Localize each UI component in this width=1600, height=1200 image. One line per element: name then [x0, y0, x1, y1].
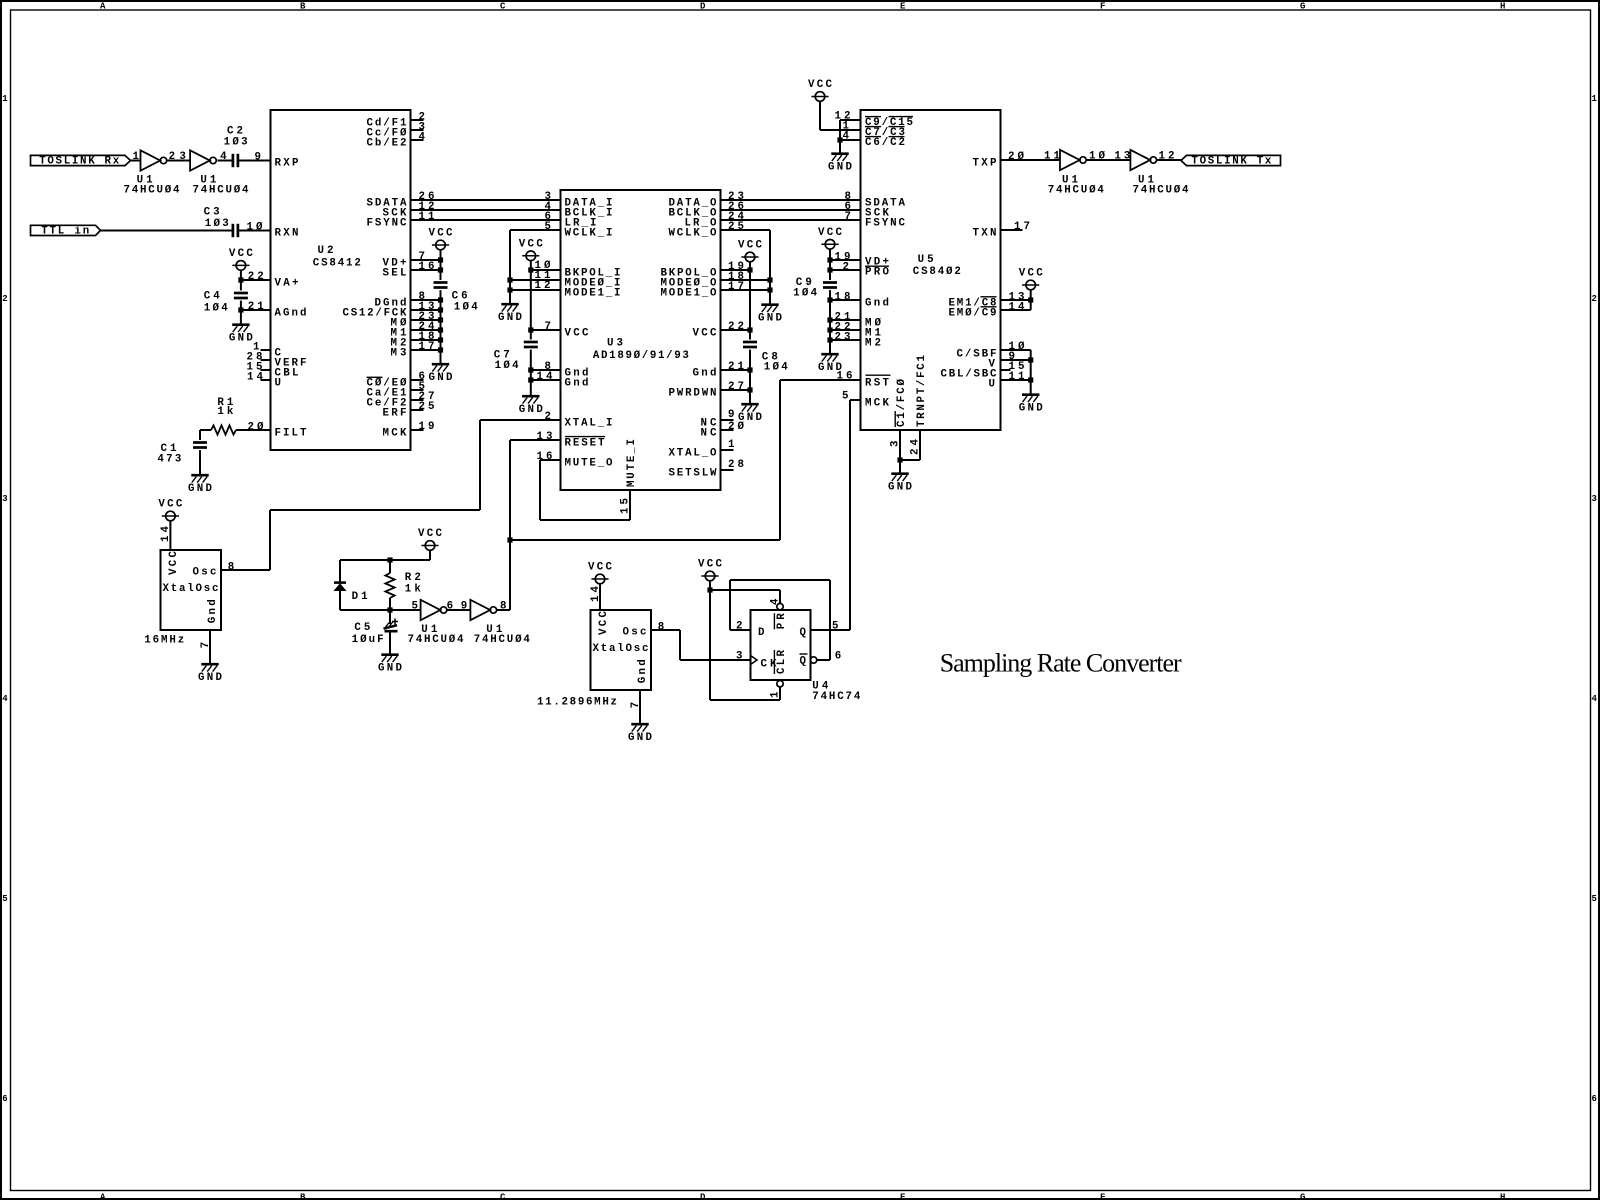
node BKPOL_O junction	[747, 267, 752, 272]
node VD+ junction	[438, 257, 443, 262]
svg-text:GND: GND	[198, 672, 223, 684]
U3 pin 24 LR_O label	[685, 211, 745, 229]
svg-text:B: B	[300, 2, 306, 12]
wire C8 column upper	[749, 262, 751, 340]
U2 pin 22 VA+ label	[248, 271, 299, 290]
svg-text:9: 9	[255, 151, 261, 163]
wire SCK to BCLK_I	[411, 209, 561, 211]
wire EM0/C9 pin 14	[1001, 309, 1031, 311]
svg-text:XtalOsc: XtalOsc	[163, 583, 219, 595]
svg-text:MODE1_I: MODE1_I	[565, 287, 621, 299]
wire R1 to C1	[200, 430, 211, 440]
U3 pin 27 PWRDWN label	[669, 381, 745, 399]
U4 pin 6 Qbar bubble	[810, 651, 841, 664]
U5 pin 3 C1/FC0 bottom	[890, 378, 909, 460]
svg-text:VCC: VCC	[738, 240, 763, 252]
power VCC at C6	[429, 228, 454, 250]
node U5 M2 junction	[827, 337, 832, 342]
U3 pin 11 MODE0_I label	[535, 270, 621, 289]
connector TOSLINK Rx	[31, 155, 131, 167]
wire TXP to U1C	[1001, 159, 1061, 161]
oscillator 11.2896MHz XtalOsc	[537, 585, 664, 708]
svg-text:FILT: FILT	[275, 428, 308, 440]
node R2 top junction	[387, 557, 392, 562]
svg-text:7: 7	[545, 321, 551, 333]
node PWRDWN junction	[747, 387, 752, 392]
svg-text:CLR: CLR	[776, 649, 788, 674]
svg-text:Gnd: Gnd	[565, 377, 589, 389]
ground above U5	[828, 154, 853, 174]
svg-text:RST: RST	[865, 377, 890, 389]
capacitor C2 103	[224, 125, 248, 167]
IC U2 CS8412	[271, 110, 411, 450]
wire MODE1_O pin 17	[721, 289, 771, 291]
svg-text:TRNPT/FC1: TRNPT/FC1	[916, 354, 928, 427]
wire D1 bottom lead	[340, 591, 390, 611]
wire U3 VCC pin 22	[721, 329, 751, 331]
U2 pin 4 Cb/E2	[367, 131, 426, 149]
wire VCC to R2/D1 top	[340, 550, 430, 560]
U1E designator	[408, 624, 465, 646]
svg-text:H: H	[1500, 1192, 1505, 1200]
svg-text:Gnd: Gnd	[865, 297, 889, 309]
svg-text:Sampling Rate Converter: Sampling Rate Converter	[940, 649, 1182, 678]
wire RESET to U5 RST	[510, 380, 861, 540]
wire SEL pin 16	[411, 269, 441, 271]
U2 pin 20 FILT label	[248, 421, 308, 439]
ground WCLK_I/MODE column	[498, 304, 523, 324]
ground below C6	[429, 364, 454, 384]
node AGnd junction	[238, 307, 243, 312]
U2 pin 28 VERF	[247, 351, 307, 369]
power VCC above U5	[808, 79, 833, 101]
svg-text:8: 8	[658, 621, 664, 633]
power VCC at C4	[229, 248, 254, 270]
svg-text:GND: GND	[758, 313, 783, 325]
svg-text:9: 9	[728, 409, 734, 421]
inverter U1D 74HCU04	[1114, 150, 1174, 170]
resistor R2 1k	[385, 572, 421, 598]
U2 pin 19 MCK	[383, 421, 435, 439]
U5 pin 7 FSYNC label	[845, 211, 906, 229]
svg-text:473: 473	[157, 454, 181, 466]
svg-text:D: D	[700, 1192, 706, 1200]
svg-text:1: 1	[1592, 94, 1598, 104]
node U3 Gnd8 junction	[528, 367, 533, 372]
power VCC at 16MHz osc	[158, 499, 183, 521]
svg-text:1Ø3: 1Ø3	[205, 218, 229, 230]
svg-text:Cb/E2: Cb/E2	[367, 137, 407, 149]
svg-text:2: 2	[2, 294, 7, 304]
wire U1E out to U1F in	[447, 609, 470, 611]
svg-text:C: C	[500, 1192, 506, 1200]
wire U3 Gnd pin 14	[531, 379, 561, 381]
U4 pin 1 CLR bubble	[769, 681, 783, 699]
ground below C8	[738, 404, 763, 424]
svg-text:8: 8	[228, 561, 234, 573]
U2 pin 24 M1 label	[391, 321, 436, 339]
U3 pin 5 WCLK_I label	[545, 221, 613, 239]
connector TTL in	[31, 225, 101, 237]
capacitor C5 10uF	[352, 619, 398, 647]
power VCC at C8	[738, 240, 763, 262]
U4 pin 4 PR bubble	[769, 598, 783, 610]
flip-flop U4 74HC74	[751, 610, 861, 703]
wire WCLK_O to ground column	[721, 230, 771, 304]
svg-text:AD189Ø/91/93: AD189Ø/91/93	[593, 350, 689, 362]
svg-text:VCC: VCC	[693, 327, 718, 339]
capacitor C8 104	[743, 342, 788, 374]
svg-text:4: 4	[419, 131, 426, 143]
wire CS12/FCK pin 13	[411, 309, 441, 311]
node U5 bottom junction	[897, 457, 902, 462]
wire FSYNC to LR_I	[411, 219, 561, 221]
U3 pin 13 RESET label	[537, 431, 606, 449]
svg-text:Gnd: Gnd	[693, 367, 717, 379]
U5 pin 5 MCK label	[842, 390, 890, 409]
wire U1B out to C2	[218, 160, 233, 162]
svg-text:GND: GND	[818, 362, 843, 374]
wire BKPOL_I pin 10	[531, 269, 561, 271]
U4 pin 5 Q wire to MCK	[832, 621, 838, 633]
wire C5 to ground	[389, 633, 391, 654]
svg-text:Osc: Osc	[193, 567, 217, 579]
connector TOSLINK Tx	[1181, 155, 1281, 167]
node M0 junction	[438, 317, 443, 322]
wire U5 M1 pin 22	[830, 329, 861, 331]
oscillator 16MHz XtalOsc	[144, 525, 234, 648]
svg-text:VCC: VCC	[1019, 268, 1044, 280]
wire VD+ pin 7	[411, 259, 441, 261]
wire C6/C2 pin 4	[840, 139, 861, 141]
node DGnd junction	[438, 297, 443, 302]
U2 pin 12 SCK label	[383, 201, 435, 219]
wire VCC to EM node	[1030, 290, 1032, 310]
wire 16MHz Gnd pin 7	[209, 630, 211, 663]
resistor R1 1k	[211, 397, 236, 435]
svg-text:5: 5	[842, 390, 848, 402]
svg-text:D: D	[758, 627, 765, 639]
inverter U1A 74HCU04	[133, 150, 176, 170]
ground below 11.2896MHz osc	[628, 724, 653, 744]
wire C6 column lower	[440, 290, 442, 363]
svg-text:1Ø4: 1Ø4	[793, 287, 818, 299]
svg-text:Gnd: Gnd	[637, 659, 649, 683]
wire C/SBF pin 10	[1001, 350, 1031, 394]
svg-text:2: 2	[1592, 294, 1597, 304]
wire Qbar to D feedback	[730, 580, 830, 660]
ground below C9	[818, 354, 843, 374]
U5 pin 22 M1 label	[835, 321, 882, 339]
U4 pin 3 CK label	[736, 651, 742, 663]
U2 pin 3 Cc/F0	[367, 121, 425, 139]
svg-text:TXN: TXN	[973, 227, 997, 239]
U3 pin 19 BKPOL_O label	[661, 261, 745, 279]
U5 pin 4 C6/C2 label	[843, 131, 906, 149]
wire C3 to U2 RXN pin 10	[238, 230, 271, 232]
svg-text:PRO: PRO	[865, 267, 890, 279]
node C6/C2 junction	[837, 137, 842, 142]
node M2 junction	[438, 337, 443, 342]
U2 pin 26 SDATA label	[367, 191, 435, 209]
wire MUTE_O to MUTE_I	[540, 460, 630, 520]
IC U5 CS8402	[861, 110, 1001, 430]
node SEL junction	[438, 267, 443, 272]
svg-text:GND: GND	[498, 312, 523, 324]
svg-text:1: 1	[728, 439, 735, 451]
U3 pin 17 MODE1_O label	[661, 281, 745, 299]
svg-text:VCC: VCC	[698, 559, 723, 571]
wire C1 to ground	[199, 450, 201, 474]
node BKPOL_I junction	[528, 267, 533, 272]
svg-text:11.2896MHz: 11.2896MHz	[537, 696, 617, 708]
U1A designator	[124, 174, 181, 196]
wire U1D out to TOSLINK Tx	[1157, 159, 1181, 161]
svg-text:VCC: VCC	[565, 327, 590, 339]
svg-text:1: 1	[2, 94, 8, 104]
svg-text:5: 5	[412, 600, 418, 612]
U3 pin 18 MODE0_O label	[661, 271, 745, 289]
svg-text:5: 5	[545, 221, 551, 233]
wire R2 bottom lead	[389, 598, 391, 610]
capacitor C9 104	[793, 277, 837, 299]
node M3 junction	[438, 347, 443, 352]
wire C8 column lower	[749, 350, 751, 403]
U5 pin 9 V label	[989, 351, 1015, 370]
svg-text:1Ø4: 1Ø4	[204, 302, 229, 314]
svg-text:MCK: MCK	[865, 397, 890, 409]
svg-text:1: 1	[133, 151, 140, 163]
wire MODE1_I pin 12	[510, 289, 561, 291]
svg-text:3: 3	[890, 441, 902, 447]
node V junction	[1028, 357, 1033, 362]
svg-text:Osc: Osc	[623, 627, 647, 639]
wire C7 column upper	[530, 261, 532, 340]
ground below 16MHz osc	[198, 664, 223, 684]
U5 pin 12 C9/C15 label	[835, 111, 914, 129]
svg-text:3: 3	[2, 494, 7, 504]
svg-text:VCC: VCC	[818, 227, 843, 239]
wire VCC column C6 upper	[440, 250, 442, 280]
inverter U1B 74HCU04	[179, 150, 227, 170]
U3 pin 21 Gnd label	[693, 361, 745, 379]
wire C4 to AGnd and GND	[240, 301, 242, 324]
svg-text:3: 3	[1592, 494, 1597, 504]
ground below U5	[888, 474, 913, 494]
power VCC at C7	[519, 239, 544, 261]
svg-text:TXP: TXP	[973, 157, 998, 169]
wire Q to U5 MCK	[811, 400, 861, 630]
wire M3 pin 17	[411, 349, 441, 351]
ground below C1	[188, 475, 213, 495]
svg-text:Gnd: Gnd	[207, 599, 219, 623]
svg-text:GND: GND	[378, 663, 403, 675]
IC U3 AD1890/91/93	[561, 190, 721, 490]
svg-text:VCC: VCC	[168, 550, 180, 575]
U3 pin 20 NC	[701, 421, 745, 439]
svg-text:2: 2	[545, 411, 551, 423]
U2 pin 13 CS12/FCK label	[343, 301, 435, 319]
U1C designator	[1048, 174, 1105, 196]
wire U1F out to RESET vertical	[497, 609, 510, 611]
inverter U1C 74HCU04	[1044, 150, 1106, 170]
node VD+ U5 junction	[827, 257, 832, 262]
svg-text:GND: GND	[429, 372, 454, 384]
wire U1A out to U1B in	[167, 160, 190, 162]
svg-text:1Ø4: 1Ø4	[454, 301, 479, 313]
svg-text:4: 4	[1592, 694, 1598, 704]
svg-text:F: F	[1100, 2, 1105, 12]
svg-text:VCC: VCC	[598, 610, 610, 635]
svg-text:4: 4	[2, 694, 8, 704]
wire VCC to VA+ node	[240, 270, 242, 290]
U2 pin 25 ERF	[383, 401, 435, 419]
svg-text:6: 6	[2, 1094, 7, 1104]
U5 pin 6 SCK label	[845, 201, 890, 219]
svg-text:CS12/FCK: CS12/FCK	[343, 307, 408, 319]
node EM1/C8 junction	[1028, 297, 1033, 302]
wire C9 column upper	[829, 249, 831, 280]
node CS12/FCK junction	[438, 307, 443, 312]
U1B designator	[193, 174, 250, 196]
U5 pin 19 VD+ label	[835, 251, 890, 268]
U5 pin 11 U label	[989, 371, 1026, 390]
wire DATA_O to SDATA	[721, 199, 861, 201]
svg-text:VCC: VCC	[429, 228, 454, 240]
U2 pin 27 Ce/F2	[367, 391, 435, 409]
svg-text:4: 4	[769, 598, 781, 605]
wire VA+ pin 22	[241, 279, 271, 281]
svg-text:GND: GND	[519, 404, 544, 416]
svg-text:D: D	[700, 2, 706, 12]
wire U5 Gnd pin 18	[830, 299, 861, 301]
wire D1 top lead	[339, 560, 341, 582]
ground WCLK_O/MODE column	[758, 305, 783, 325]
wire WCLK_I to ground column	[510, 230, 561, 303]
wire BCLK_O to SCK	[721, 209, 861, 211]
U3 pin 7 VCC label	[545, 321, 590, 339]
U5 pin 10 C/SBF label	[957, 341, 1026, 360]
wire node to C5	[389, 610, 391, 624]
svg-text:RXP: RXP	[275, 158, 300, 170]
U1F designator	[474, 624, 531, 646]
svg-text:G: G	[1300, 2, 1305, 12]
svg-text:GND: GND	[828, 162, 853, 174]
svg-text:GND: GND	[628, 732, 653, 744]
U5 pin 8 SDATA label	[845, 191, 906, 209]
wire BKPOL_O pin 19	[721, 269, 751, 271]
wire PWRDWN pin 27	[721, 389, 751, 391]
svg-text:6: 6	[835, 651, 841, 663]
wire U3 Gnd pin 21	[721, 369, 751, 371]
svg-text:VCC: VCC	[158, 499, 183, 511]
svg-text:E: E	[900, 1192, 906, 1200]
node MODE1_I junction	[507, 287, 512, 292]
U4 pin 2 D wire with feedback	[736, 621, 742, 633]
U2 pin 8 DGnd label	[375, 291, 425, 309]
ground below C5	[378, 655, 403, 675]
svg-text:G: G	[1300, 1192, 1305, 1200]
power VCC at 11.2896MHz osc	[588, 562, 613, 584]
wire AGnd pin 21	[241, 309, 271, 311]
svg-text:E: E	[900, 2, 906, 12]
svg-text:VCC: VCC	[229, 248, 254, 260]
node U5 Gnd junction	[827, 297, 832, 302]
U2 pin 21 AGnd label	[248, 301, 307, 320]
U5 pin 13 EM1/C8 label	[949, 291, 1025, 309]
U2 pin 1 C	[253, 341, 282, 359]
svg-text:RXN: RXN	[275, 228, 299, 240]
U2 pin 10 RXN label	[247, 221, 299, 239]
U3 pin 2 XTAL_I label	[545, 411, 613, 429]
svg-text:VCC: VCC	[588, 562, 613, 574]
wire VCC to C7/C3 pin 1	[820, 101, 861, 130]
svg-text:GND: GND	[229, 333, 254, 345]
U5 pin 1 C7/C3 label	[843, 121, 906, 139]
wire DGnd pin 8	[411, 299, 441, 301]
U2 pin 16 SEL label	[383, 261, 435, 279]
wire C9/C15 pin 12	[840, 120, 861, 153]
U2 pin 6 C0/E0	[367, 371, 425, 389]
U2 pin 2 Cd/F1	[367, 111, 425, 129]
U5 pin 23 M2 label	[835, 331, 882, 349]
svg-text:1Ø4: 1Ø4	[764, 362, 789, 374]
U1D designator	[1133, 174, 1190, 196]
wire U5 VD+ pin 19	[830, 259, 861, 261]
U3 pin 25 WCLK_O label	[669, 221, 745, 239]
svg-text:VA+: VA+	[275, 278, 299, 290]
node U junction	[1028, 377, 1033, 382]
node PRO junction	[827, 267, 832, 272]
svg-text:B: B	[300, 1192, 306, 1200]
wire C9 column lower	[829, 290, 831, 353]
svg-text:GND: GND	[888, 482, 913, 494]
svg-text:FSYNC: FSYNC	[865, 217, 906, 229]
U5 pin 16 RST label	[837, 371, 891, 390]
wire U1C out to U1D in	[1087, 159, 1131, 161]
U5 pin 17 TXN	[973, 221, 1031, 239]
svg-text:ERF: ERF	[383, 407, 407, 419]
wire VCC to CLR	[710, 590, 780, 700]
svg-text:1Ø4: 1Ø4	[495, 360, 520, 372]
U2 pin 14 U	[247, 371, 281, 389]
svg-text:16MHz: 16MHz	[144, 635, 184, 647]
wire node to U1E input	[390, 609, 421, 611]
svg-text:3: 3	[179, 151, 185, 163]
svg-text:TOSLINK Tx: TOSLINK Tx	[1191, 155, 1272, 167]
U5 pin 20 TXP label	[973, 151, 1025, 169]
node C5/inverter input junction	[387, 607, 392, 612]
svg-text:GND: GND	[1019, 403, 1044, 415]
svg-text:F: F	[1100, 1192, 1105, 1200]
wire V pin 9	[1001, 359, 1031, 361]
capacitor C3 103	[204, 206, 238, 237]
U3 pin 28 SETSLW	[669, 459, 745, 479]
inverter U1E 74HCU04	[412, 600, 454, 620]
U5 pin 21 M0 label	[835, 311, 882, 329]
U5 pin 2 PRO label	[843, 261, 890, 278]
ground below C/SBF group	[1019, 395, 1044, 415]
node U5 M0 junction	[827, 317, 832, 322]
wire M2 pin 18	[411, 339, 441, 341]
U3 pin 3 DATA_I label	[545, 191, 613, 209]
wire U3 VCC pin 7	[531, 329, 561, 331]
U3 pin 15 MUTE_I bottom	[620, 439, 639, 514]
svg-text:XtalOsc: XtalOsc	[593, 643, 649, 655]
node MODE1_O junction	[767, 287, 772, 292]
node M1 junction	[438, 327, 443, 332]
svg-text:SEL: SEL	[383, 267, 407, 279]
